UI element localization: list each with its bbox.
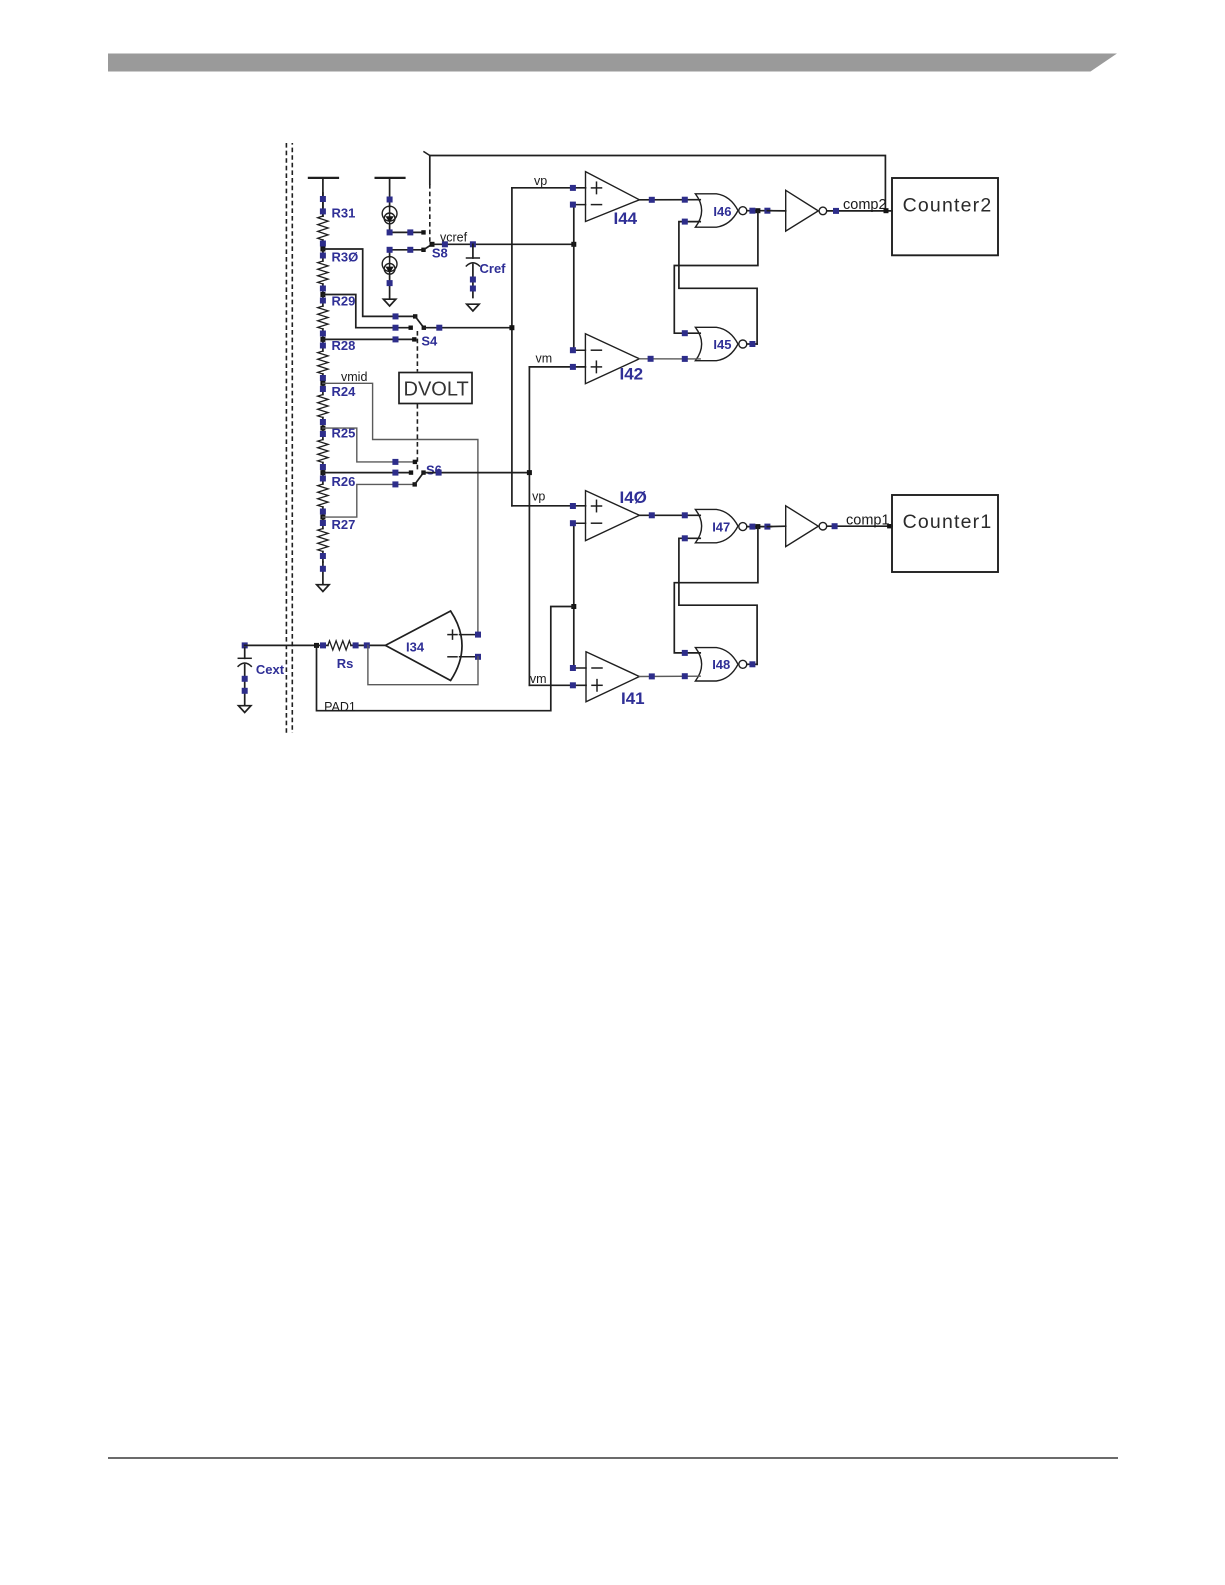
power rail T-bar (current sources) — [376, 177, 405, 179]
wire I48 output stub — [747, 663, 757, 665]
NOR gate I46 — [695, 194, 738, 227]
svg-text:R27: R27 — [332, 517, 356, 532]
svg-text:vmid: vmid — [341, 370, 367, 384]
wire R25 node to S6 top throw — [323, 428, 415, 462]
svg-text:S4: S4 — [421, 334, 438, 349]
wire R30 node to S4 top throw — [323, 249, 415, 316]
svg-text:I41: I41 — [621, 689, 645, 708]
current source I2 (bottom) — [389, 250, 391, 257]
svg-text:R29: R29 — [332, 294, 356, 309]
svg-text:I4Ø: I4Ø — [620, 488, 647, 507]
wire vm to comparator I42 + — [529, 366, 585, 368]
block Counter1 — [892, 495, 998, 572]
resistor R30 — [322, 250, 324, 262]
wire S8 common / node vcref — [432, 243, 574, 245]
wire vm to comparator I41 + — [529, 684, 586, 686]
wire Cext to PAD1 node — [245, 644, 317, 646]
resistor R26 — [322, 473, 324, 485]
wire I42 output to I45 — [639, 358, 700, 360]
wire vmid to I34 + input — [323, 383, 478, 634]
switch S6 — [413, 460, 417, 464]
switch S4 — [413, 314, 417, 318]
wire I40 output to I47 — [639, 514, 700, 516]
svg-text:vcref: vcref — [440, 231, 468, 245]
rail vcref to comparator minus inputs — [573, 205, 575, 351]
wire R27 node to S6 bottom throw — [323, 484, 415, 517]
wire vp to comparator I40 + — [512, 505, 586, 507]
comparator I42 — [585, 334, 639, 384]
svg-text:vm: vm — [530, 672, 547, 686]
resistor R27 — [322, 517, 324, 529]
dashed control DVOLT to S4 — [416, 331, 418, 372]
wire I46 output to I45 input (latch) — [674, 211, 758, 334]
dashed control DVOLT to S8 — [429, 184, 431, 242]
wire I41 output to I48 — [639, 675, 700, 677]
comparator I41 — [586, 652, 639, 702]
op-amp I34 - input stub — [460, 656, 479, 658]
ground (current source) — [383, 299, 395, 306]
svg-text:vp: vp — [534, 174, 547, 188]
inverter (comp1) — [786, 506, 819, 547]
block DVOLT — [399, 373, 472, 404]
wire S4 common to vp rail — [424, 327, 512, 329]
inverter (comp2) — [786, 190, 819, 231]
svg-text:Counter1: Counter1 — [903, 511, 993, 533]
wire I47 output node — [747, 526, 772, 528]
rail vm (S6 output) — [528, 367, 530, 685]
svg-text:I44: I44 — [614, 209, 638, 228]
NOR gate I45 — [695, 327, 738, 360]
wire I46 to inverter — [767, 210, 785, 212]
op-amp I34 + input stub — [460, 634, 478, 636]
svg-text:DVOLT: DVOLT — [404, 379, 469, 401]
svg-text:Cext: Cext — [256, 662, 285, 677]
resistor R25 — [322, 428, 324, 440]
resistor Rs — [317, 644, 328, 646]
wire I34 feedback loop — [368, 645, 478, 684]
comparator I44 — [586, 172, 640, 222]
svg-text:PAD1: PAD1 — [324, 700, 356, 714]
svg-text:Rs: Rs — [337, 656, 354, 671]
ground (Cext) — [239, 706, 251, 713]
switch S8 — [424, 244, 433, 250]
svg-text:I45: I45 — [713, 337, 731, 352]
svg-text:I34: I34 — [406, 640, 425, 655]
wire I47 output to I48 input (latch) — [674, 527, 758, 653]
svg-text:vp: vp — [532, 490, 545, 504]
wire I46 output node — [747, 210, 772, 212]
wire current source I2 to S8 lower throw — [390, 249, 424, 251]
node junction S6/vm — [527, 470, 532, 475]
header banner bar — [108, 54, 1117, 72]
svg-text:I48: I48 — [712, 657, 730, 672]
svg-text:R26: R26 — [332, 474, 356, 489]
capacitor Cext — [242, 642, 248, 648]
svg-text:Cref: Cref — [480, 261, 507, 276]
svg-text:R3Ø: R3Ø — [332, 249, 359, 264]
block Counter2 — [892, 178, 998, 255]
op-amp I34 (buffer) — [385, 611, 462, 681]
ground (ladder) — [317, 585, 329, 592]
wire top feedback (Counter2 to S8 control) — [430, 156, 886, 211]
resistor R31 — [322, 193, 324, 216]
svg-text:vm: vm — [536, 352, 553, 366]
wire S6 common to vm rail — [424, 472, 530, 474]
wire I47 to inverter — [767, 525, 785, 527]
svg-text:I47: I47 — [712, 520, 730, 535]
NOR gate I47 — [695, 509, 738, 542]
comparator I40 — [586, 491, 640, 541]
wire I45 output stub — [747, 343, 757, 345]
resistor R28 — [322, 340, 324, 352]
svg-text:I42: I42 — [620, 365, 644, 384]
dashed bus line right — [291, 143, 293, 733]
node junction S4/vp — [509, 325, 514, 330]
wire corner tick — [424, 152, 430, 156]
svg-text:comp2: comp2 — [843, 197, 887, 213]
wire R28 node to S4 bottom throw — [323, 338, 414, 340]
ground (Cref) — [467, 304, 479, 311]
wire inverter to Counter1 / node comp1 — [827, 525, 892, 527]
wire R26 node to S6 middle throw — [323, 472, 411, 474]
power rail T-bar (resistor ladder) — [309, 177, 338, 179]
node junction PAD1 rail — [571, 604, 576, 609]
wire vp to comparator I44 + — [512, 187, 586, 189]
NOR gate I48 — [695, 648, 738, 681]
resistor R29 — [322, 295, 324, 307]
wire inverter to Counter2 / node comp2 — [827, 210, 892, 212]
node PAD1 junction — [314, 643, 319, 648]
svg-text:comp1: comp1 — [846, 513, 890, 529]
wire I45 output to I46 input (latch) — [679, 222, 757, 344]
wire PAD1 trace — [317, 607, 574, 711]
svg-text:R31: R31 — [332, 205, 356, 220]
svg-text:Counter2: Counter2 — [903, 194, 993, 216]
dashed bus line left — [285, 143, 287, 733]
ladder ground wire — [322, 562, 324, 585]
wire I48 output to I47 input (latch) — [679, 538, 757, 664]
dashed control DVOLT to S6 — [416, 404, 418, 470]
rail vp (S4 output) — [511, 188, 513, 506]
resistor R24 — [322, 383, 324, 395]
svg-text:S8: S8 — [432, 246, 448, 261]
footer rule — [108, 1457, 1118, 1459]
rail PAD1 to comparator minus inputs — [573, 523, 575, 668]
svg-text:I46: I46 — [713, 204, 731, 219]
wire I44 output to I46 — [639, 199, 700, 201]
wire R29 node to S4 middle throw — [323, 295, 411, 328]
svg-text:R24: R24 — [332, 384, 357, 399]
capacitor Cref — [472, 244, 474, 258]
wire current source I1 to S8 upper throw — [390, 231, 424, 233]
current source I1 (top) — [387, 197, 393, 203]
